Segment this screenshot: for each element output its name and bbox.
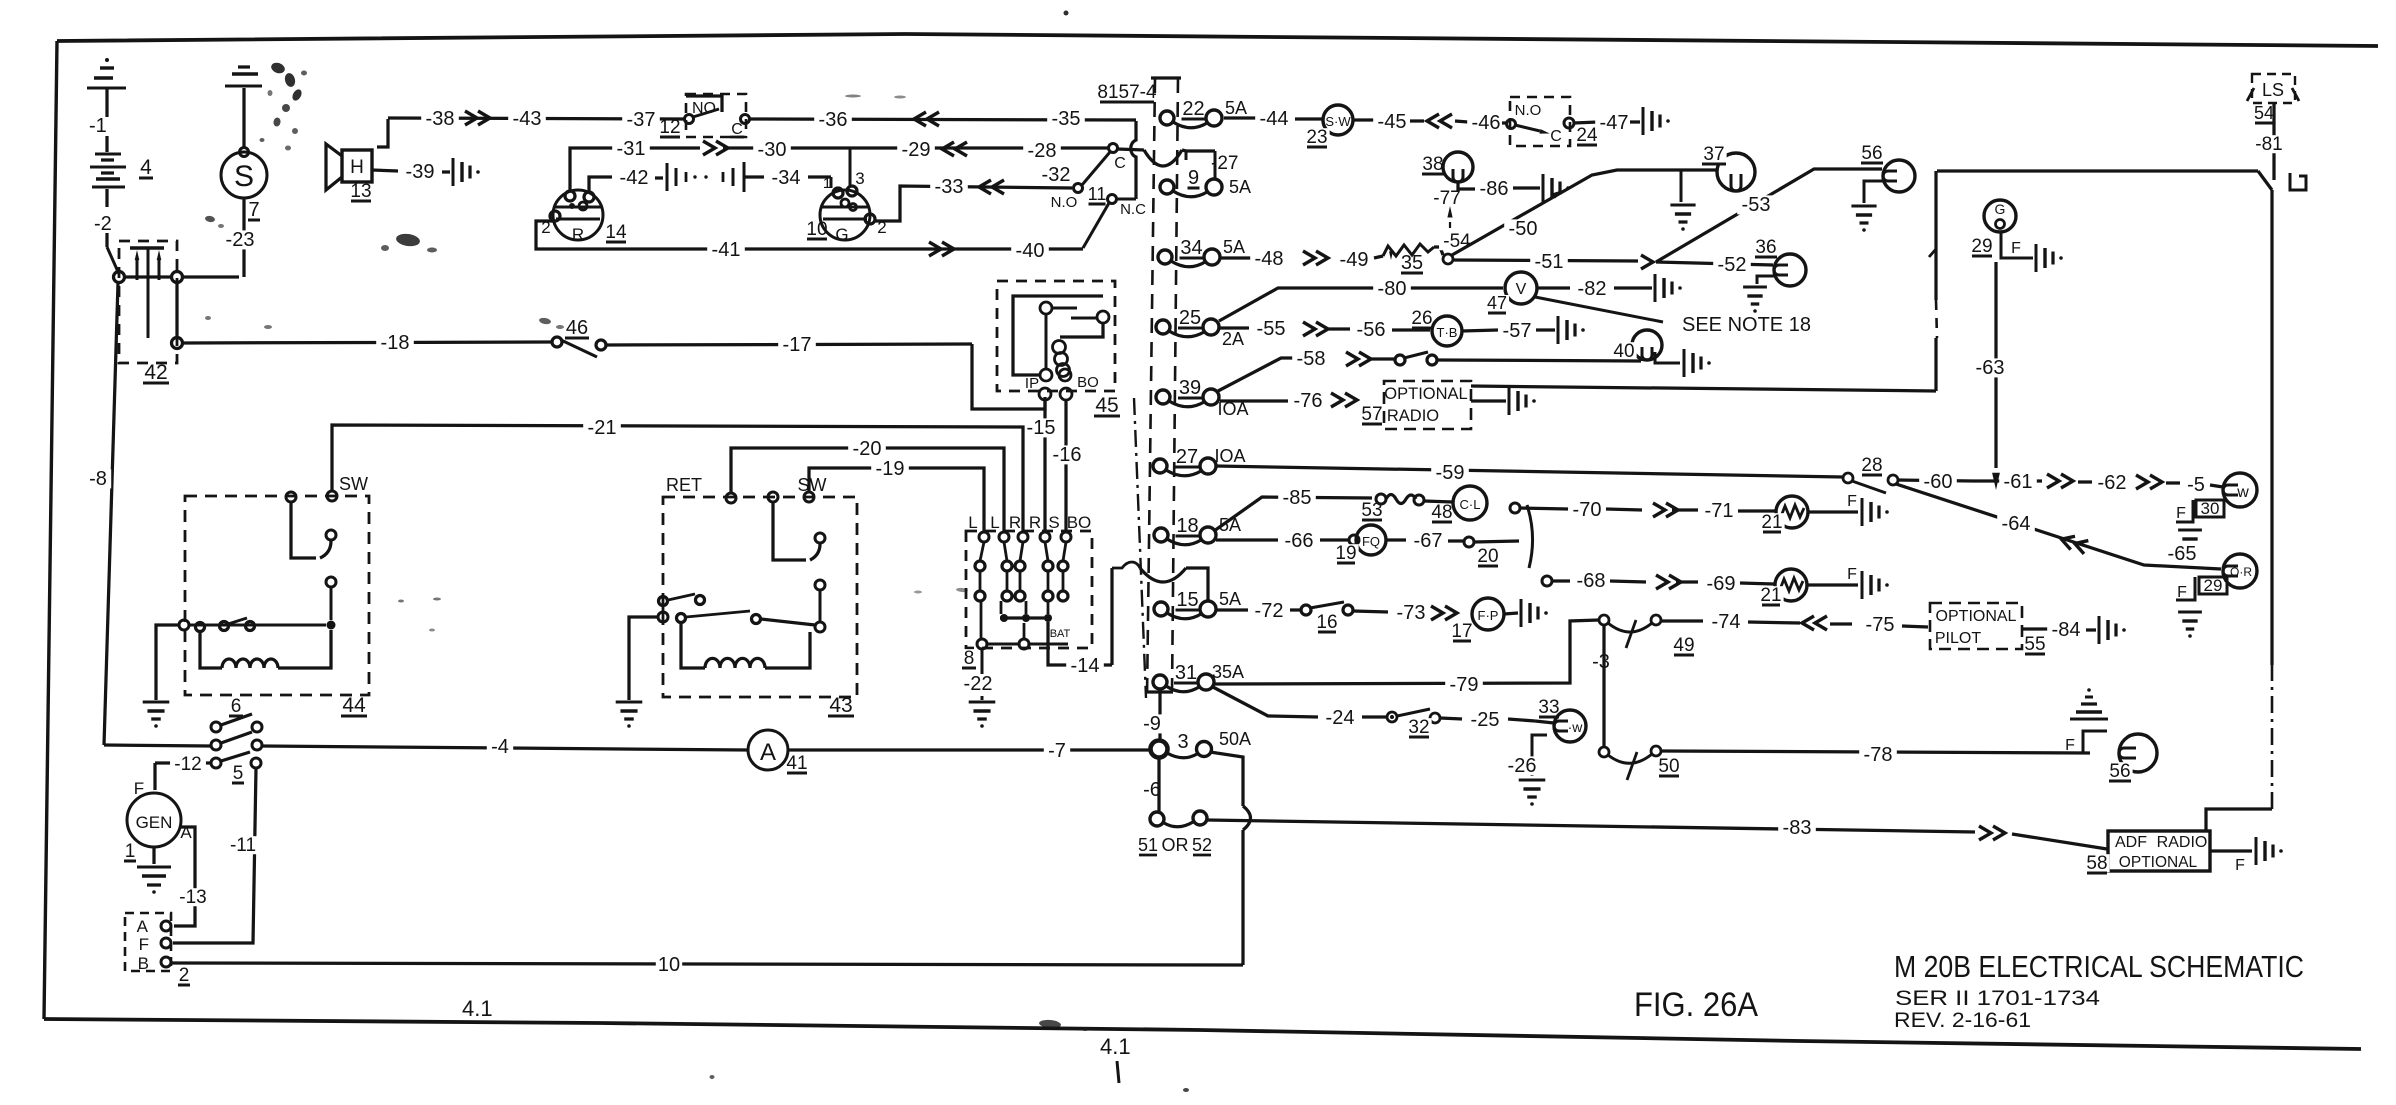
svg-text:-5: -5 (2187, 474, 2205, 496)
svg-text:15: 15 (1176, 589, 1198, 611)
svg-text:41: 41 (786, 753, 807, 774)
svg-text:22: 22 (1182, 98, 1204, 120)
svg-text:-73: -73 (1397, 602, 1426, 624)
svg-text:-14: -14 (1071, 655, 1100, 677)
svg-text:-13: -13 (179, 887, 206, 908)
svg-text:-66: -66 (1285, 530, 1314, 552)
svg-text:14: 14 (605, 222, 627, 243)
svg-text:-23: -23 (226, 229, 255, 251)
svg-text:N.O: N.O (1051, 194, 1078, 211)
svg-text:-79: -79 (1450, 674, 1479, 696)
svg-text:35A: 35A (1212, 662, 1244, 682)
svg-text:-75: -75 (1866, 614, 1895, 636)
svg-text:H: H (350, 157, 364, 178)
svg-text:5A: 5A (1229, 177, 1251, 197)
svg-text:4.1: 4.1 (462, 996, 493, 1021)
svg-text:C·L: C·L (1460, 497, 1481, 512)
svg-text:F: F (2176, 505, 2186, 522)
svg-text:-3: -3 (1592, 651, 1610, 673)
svg-text:56: 56 (1861, 143, 1882, 164)
svg-text:-25: -25 (1471, 709, 1500, 731)
svg-text:23: 23 (1306, 127, 1327, 148)
svg-text:ADF: ADF (2115, 834, 2147, 851)
svg-text:GEN: GEN (136, 813, 173, 832)
svg-text:-21: -21 (588, 417, 617, 439)
svg-text:-15: -15 (1027, 417, 1056, 439)
svg-text:-32: -32 (1042, 164, 1071, 186)
svg-text:12: 12 (659, 117, 680, 138)
svg-text:44: 44 (342, 694, 366, 717)
svg-text:S·W: S·W (1325, 114, 1351, 129)
svg-text:-56: -56 (1357, 319, 1386, 341)
svg-text:-77: -77 (1433, 188, 1460, 209)
svg-text:-60: -60 (1924, 471, 1953, 493)
svg-text:10: 10 (806, 219, 827, 240)
svg-text:40: 40 (1613, 341, 1634, 362)
svg-text:48: 48 (1431, 502, 1452, 523)
svg-text:F: F (2065, 737, 2075, 754)
svg-text:-59: -59 (1436, 462, 1465, 484)
svg-text:5: 5 (233, 763, 244, 784)
svg-text:-40: -40 (1016, 240, 1045, 262)
svg-text:V: V (1516, 281, 1527, 298)
svg-text:52: 52 (1192, 835, 1212, 855)
svg-text:-46: -46 (1472, 112, 1501, 134)
svg-text:S: S (234, 160, 254, 193)
svg-text:·w: ·w (1568, 719, 1584, 735)
svg-text:-70: -70 (1573, 499, 1602, 521)
svg-text:-83: -83 (1783, 817, 1812, 839)
svg-text:C: C (731, 121, 743, 138)
svg-text:21: 21 (1760, 585, 1781, 606)
svg-text:R: R (572, 225, 584, 244)
svg-text:-43: -43 (513, 108, 542, 130)
svg-text:4.1: 4.1 (1100, 1034, 1131, 1059)
svg-text:-27: -27 (1211, 153, 1238, 174)
svg-text:-72: -72 (1255, 600, 1284, 622)
svg-text:8157-4: 8157-4 (1097, 82, 1157, 103)
svg-text:N.C: N.C (1120, 201, 1146, 218)
svg-text:42: 42 (144, 361, 167, 384)
svg-text:-54: -54 (1443, 231, 1471, 252)
svg-text:-67: -67 (1414, 530, 1443, 552)
svg-text:-50: -50 (1509, 218, 1538, 240)
svg-text:C: C (1114, 155, 1126, 172)
svg-text:-2: -2 (94, 213, 112, 235)
svg-text:FIG. 26A: FIG. 26A (1634, 986, 1758, 1024)
svg-text:1: 1 (823, 175, 831, 192)
svg-text:54: 54 (2254, 103, 2274, 123)
svg-text:OPTIONAL: OPTIONAL (1936, 608, 2017, 625)
svg-text:-24: -24 (1326, 707, 1355, 729)
svg-text:-62: -62 (2098, 472, 2127, 494)
svg-text:-85: -85 (1283, 487, 1312, 509)
svg-text:SER II 1701-1734: SER II 1701-1734 (1895, 987, 2100, 1010)
svg-text:F: F (2235, 857, 2245, 874)
svg-text:S: S (1048, 513, 1059, 532)
svg-text:-29: -29 (902, 139, 931, 161)
svg-text:RADIO: RADIO (2157, 834, 2208, 851)
svg-text:36: 36 (1755, 237, 1776, 258)
svg-text:-17: -17 (783, 334, 812, 356)
svg-text:G: G (835, 225, 848, 244)
svg-text:3: 3 (1177, 731, 1188, 753)
svg-text:-69: -69 (1707, 573, 1736, 595)
svg-text:-26: -26 (1508, 755, 1537, 777)
svg-text:5A: 5A (1225, 98, 1247, 118)
svg-text:OPTIONAL: OPTIONAL (1384, 385, 1467, 403)
svg-text:-38: -38 (426, 108, 455, 130)
svg-text:-63: -63 (1976, 357, 2005, 379)
svg-text:-4: -4 (491, 736, 509, 758)
svg-text:2A: 2A (1222, 329, 1244, 349)
svg-text:IP: IP (1025, 375, 1039, 392)
svg-text:SW: SW (339, 474, 368, 494)
svg-text:35: 35 (1401, 252, 1423, 274)
svg-text:-16: -16 (1053, 444, 1082, 466)
svg-text:11: 11 (1088, 184, 1107, 204)
svg-text:-1: -1 (89, 115, 107, 137)
svg-text:N.O: N.O (1515, 102, 1542, 119)
svg-text:BO: BO (1077, 374, 1099, 391)
svg-text:-28: -28 (1028, 140, 1057, 162)
svg-text:L: L (990, 513, 999, 532)
svg-text:55: 55 (2024, 634, 2045, 655)
svg-text:-58: -58 (1297, 348, 1326, 370)
svg-text:30: 30 (2201, 499, 2220, 518)
svg-text:-8: -8 (89, 468, 107, 490)
svg-text:-47: -47 (1600, 112, 1629, 134)
svg-text:5A: 5A (1219, 589, 1241, 609)
svg-text:F: F (2177, 584, 2187, 601)
svg-text:-31: -31 (617, 138, 646, 160)
svg-text:-48: -48 (1255, 248, 1284, 270)
svg-text:4: 4 (140, 156, 152, 179)
svg-text:31: 31 (1175, 662, 1197, 684)
svg-text:FQ: FQ (1362, 534, 1380, 549)
svg-text:34: 34 (1180, 237, 1202, 259)
svg-text:20: 20 (1477, 546, 1498, 567)
svg-text:45: 45 (1095, 394, 1118, 417)
svg-text:6: 6 (231, 696, 242, 717)
svg-text:-35: -35 (1052, 108, 1081, 130)
svg-text:RET: RET (666, 475, 702, 495)
svg-text:A: A (137, 917, 149, 936)
svg-text:-11: -11 (230, 835, 256, 856)
svg-text:-53: -53 (1742, 194, 1771, 216)
svg-text:w: w (2236, 484, 2249, 501)
svg-text:LS: LS (2262, 80, 2284, 100)
svg-text:B: B (138, 954, 149, 973)
svg-text:-30: -30 (758, 139, 787, 161)
svg-text:PILOT: PILOT (1935, 630, 1981, 647)
svg-text:39: 39 (1179, 377, 1201, 399)
svg-text:O·R: O·R (2230, 565, 2252, 579)
svg-text:R: R (1029, 513, 1041, 532)
svg-text:F: F (1847, 566, 1857, 583)
svg-text:9: 9 (1188, 167, 1199, 189)
svg-text:26: 26 (1411, 308, 1432, 329)
svg-text:29: 29 (2204, 576, 2223, 595)
svg-text:-74: -74 (1712, 611, 1741, 633)
svg-text:T·B: T·B (1437, 325, 1458, 340)
svg-text:-64: -64 (2002, 513, 2031, 535)
svg-text:-52: -52 (1718, 254, 1747, 276)
svg-text:47: 47 (1487, 293, 1507, 313)
svg-text:18: 18 (1176, 515, 1198, 537)
svg-text:-76: -76 (1294, 390, 1323, 412)
svg-text:27: 27 (1176, 446, 1198, 468)
svg-text:-18: -18 (381, 332, 410, 354)
svg-text:-84: -84 (2052, 619, 2081, 641)
svg-text:50A: 50A (1219, 729, 1251, 749)
svg-text:R: R (1009, 513, 1021, 532)
svg-text:16: 16 (1316, 612, 1337, 633)
svg-text:24: 24 (1576, 125, 1598, 146)
svg-text:-22: -22 (964, 673, 993, 695)
svg-text:-82: -82 (1578, 278, 1607, 300)
svg-text:-57: -57 (1503, 320, 1532, 342)
svg-text:-41: -41 (712, 239, 741, 261)
svg-text:-78: -78 (1864, 744, 1893, 766)
svg-text:50: 50 (1658, 756, 1679, 777)
svg-text:5A: 5A (1223, 237, 1245, 257)
svg-text:-44: -44 (1260, 108, 1289, 130)
svg-text:29: 29 (1971, 236, 1992, 257)
svg-text:F: F (139, 935, 149, 954)
svg-text:-45: -45 (1378, 111, 1407, 133)
svg-text:43: 43 (829, 694, 852, 717)
svg-text:8: 8 (964, 648, 975, 669)
svg-text:51: 51 (1138, 835, 1158, 855)
svg-text:-12: -12 (174, 754, 201, 775)
svg-text:OPTIONAL: OPTIONAL (2119, 854, 2198, 871)
svg-text:G: G (1995, 201, 2006, 217)
svg-text:17: 17 (1451, 621, 1472, 642)
svg-text:F: F (2011, 240, 2021, 257)
svg-text:56: 56 (2109, 761, 2130, 782)
svg-text:F·P: F·P (1478, 608, 1499, 623)
svg-text:19: 19 (1335, 543, 1356, 564)
svg-text:-34: -34 (772, 167, 801, 189)
svg-text:37: 37 (1703, 144, 1724, 165)
svg-text:-51: -51 (1535, 251, 1564, 273)
svg-text:21: 21 (1761, 512, 1782, 533)
svg-text:49: 49 (1673, 635, 1694, 656)
svg-text:-39: -39 (406, 161, 435, 183)
svg-text:7: 7 (248, 199, 259, 221)
svg-text:3: 3 (855, 169, 864, 188)
svg-text:10: 10 (658, 954, 680, 976)
svg-text:-49: -49 (1340, 249, 1369, 271)
svg-text:32: 32 (1408, 717, 1429, 738)
svg-text:38: 38 (1422, 154, 1443, 175)
svg-text:C: C (1550, 128, 1562, 145)
svg-text:-81: -81 (2255, 134, 2282, 155)
svg-text:OR: OR (1162, 835, 1189, 855)
svg-text:-86: -86 (1480, 178, 1509, 200)
svg-text:-42: -42 (620, 167, 649, 189)
svg-text:REV. 2-16-61: REV. 2-16-61 (1894, 1009, 2031, 1032)
svg-text:RADIO: RADIO (1387, 407, 1439, 425)
svg-text:BO: BO (1067, 513, 1092, 532)
svg-text:-36: -36 (819, 109, 848, 131)
svg-text:-9: -9 (1143, 713, 1161, 735)
svg-text:28: 28 (1861, 455, 1882, 476)
svg-text:-7: -7 (1048, 740, 1066, 762)
svg-text:-20: -20 (853, 438, 882, 460)
svg-text:-68: -68 (1577, 570, 1606, 592)
svg-text:53: 53 (1361, 500, 1382, 521)
svg-text:13: 13 (350, 181, 371, 202)
svg-text:BAT: BAT (1050, 628, 1071, 640)
svg-text:-65: -65 (2168, 543, 2197, 565)
svg-text:F: F (1847, 493, 1857, 510)
svg-text:L: L (968, 513, 977, 532)
svg-text:58: 58 (2086, 853, 2107, 874)
svg-text:46: 46 (566, 317, 588, 339)
svg-text:-71: -71 (1705, 500, 1734, 522)
svg-text:1: 1 (125, 841, 136, 862)
svg-text:-80: -80 (1378, 278, 1407, 300)
svg-text:57: 57 (1361, 404, 1382, 425)
svg-text:-61: -61 (2004, 471, 2033, 493)
svg-text:A: A (760, 739, 776, 766)
svg-text:25: 25 (1179, 307, 1201, 329)
svg-text:M 20B ELECTRICAL SCHEMATIC: M 20B ELECTRICAL SCHEMATIC (1894, 949, 2304, 984)
svg-text:-33: -33 (935, 176, 964, 198)
svg-text:SEE NOTE 18: SEE NOTE 18 (1682, 314, 1811, 336)
svg-text:-37: -37 (627, 109, 656, 131)
svg-text:-55: -55 (1257, 318, 1286, 340)
svg-text:2: 2 (179, 965, 190, 986)
svg-text:-19: -19 (876, 458, 905, 480)
svg-text:IOA: IOA (1214, 446, 1245, 466)
